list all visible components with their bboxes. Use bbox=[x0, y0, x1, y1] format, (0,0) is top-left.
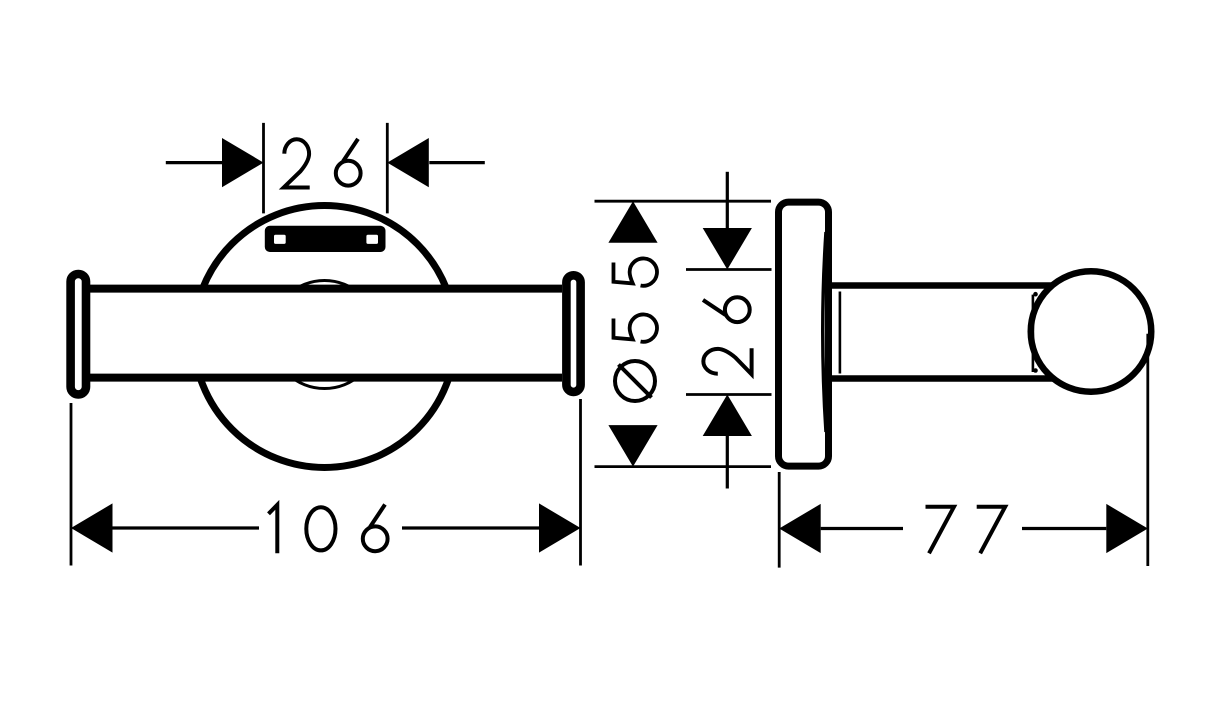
dim 26 leader bottom bbox=[726, 436, 729, 489]
joint dot top bbox=[1033, 292, 1038, 297]
dim 77 line right bbox=[1022, 527, 1106, 530]
bar top edge bbox=[88, 285, 562, 293]
dim 26 (side): extension lines bbox=[686, 268, 772, 271]
dim Ø55 arrow bottom bbox=[608, 425, 657, 467]
dim Ø55 arrow top bbox=[608, 201, 657, 243]
dim 26 line right bbox=[429, 161, 485, 164]
dim 77 line left bbox=[821, 527, 903, 530]
dim 26 line left bbox=[166, 161, 222, 164]
text Ø55 rotated bbox=[615, 361, 655, 401]
dim 26 leader top bbox=[726, 172, 729, 229]
bar body bbox=[88, 285, 562, 381]
dim Ø55: extension lines bbox=[595, 200, 772, 203]
dim 106 line right bbox=[402, 526, 539, 529]
knob joint line bbox=[1032, 295, 1035, 372]
dim 106 arrow left bbox=[71, 503, 113, 552]
dim 77: extension lines bbox=[778, 472, 781, 568]
text 77 bbox=[926, 507, 955, 554]
slot hole right bbox=[366, 235, 378, 244]
left end cap bbox=[71, 274, 86, 394]
slot hole left bbox=[274, 235, 286, 244]
text 26 bbox=[284, 139, 310, 187]
right end cap bbox=[566, 275, 580, 392]
wall plate bbox=[779, 202, 829, 466]
stem bottom edge bbox=[832, 375, 1054, 382]
dim 26 (top): extension lines bbox=[262, 123, 265, 213]
dim 106 (bottom): extension lines bbox=[70, 403, 73, 566]
mounting slot bbox=[265, 226, 386, 252]
text 26 rotated bbox=[703, 348, 751, 374]
dim 77 arrow left bbox=[779, 504, 821, 553]
dim 106 arrow right bbox=[539, 503, 581, 552]
plate inner edge arc bbox=[823, 232, 826, 432]
stem collar line bbox=[839, 292, 842, 374]
dim 106 line left bbox=[113, 526, 260, 529]
stem top edge bbox=[832, 282, 1054, 289]
backplate circle bbox=[194, 206, 456, 468]
dim 77 arrow right bbox=[1106, 504, 1148, 553]
text 106 bbox=[269, 505, 278, 554]
inner hub circle bbox=[271, 281, 379, 389]
joint dot bottom bbox=[1033, 368, 1038, 373]
dim 26 arrow bottom bbox=[703, 395, 752, 437]
dim 26 arrow right bbox=[387, 138, 429, 187]
dim 26 arrow left bbox=[222, 138, 264, 187]
dim 26 arrow top bbox=[703, 228, 752, 270]
stem fill bbox=[832, 289, 1045, 375]
bar bottom edge bbox=[88, 374, 562, 382]
ball knob bbox=[1031, 271, 1152, 392]
